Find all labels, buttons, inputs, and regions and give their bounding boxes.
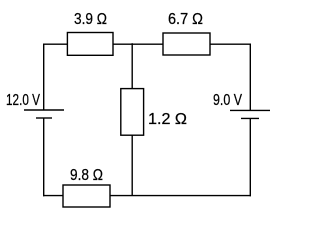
wire right upper (249, 44, 251, 111)
battery 12.0 V positive plate (24, 109, 64, 111)
svg-text:1.2 Ω: 1.2 Ω (148, 111, 187, 128)
svg-text:6.7 Ω: 6.7 Ω (168, 11, 203, 28)
svg-text:3.9 Ω: 3.9 Ω (74, 11, 107, 28)
resistor 1.2 ohm (121, 89, 144, 136)
battery 9.0 V negative plate (241, 117, 259, 119)
svg-text:9.0 V: 9.0 V (213, 92, 242, 109)
resistor 6.7 ohm (163, 33, 210, 55)
svg-text:9.8 Ω: 9.8 Ω (70, 167, 103, 184)
wire middle lower (131, 135, 133, 195)
wire left upper (43, 44, 45, 111)
resistor 9.8 ohm (63, 185, 110, 207)
battery 12.0 V negative plate (36, 117, 52, 119)
wire top-right segment (210, 43, 250, 45)
wire top-middle segment (node junction at x=132) (113, 43, 163, 45)
wire left lower (43, 118, 45, 196)
battery 9.0 V positive plate (230, 109, 270, 111)
wire top-left segment (44, 43, 68, 45)
wire bottom-right segment (node junction at x=132) (110, 195, 251, 197)
wire bottom-left segment (43, 195, 63, 197)
svg-text:12.0 V: 12.0 V (6, 92, 40, 109)
wire middle upper (131, 43, 133, 88)
wire right lower (249, 118, 251, 196)
resistor 3.9 ohm (67, 33, 113, 56)
